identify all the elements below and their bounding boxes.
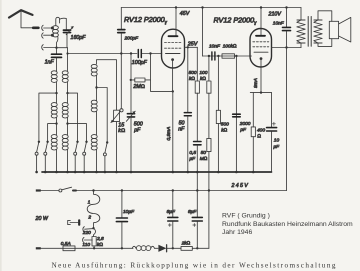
resistor 100kOhm vertical <box>203 8 212 139</box>
svg-text:500: 500 <box>189 70 197 76</box>
svg-text:Jahr 1946: Jahr 1946 <box>222 229 252 236</box>
wire cathode bar <box>250 92 271 94</box>
wire socket220 <box>85 228 94 231</box>
svg-text:8µF: 8µF <box>167 209 176 215</box>
svg-text:245V: 245V <box>231 183 250 189</box>
svg-text:0,5: 0,5 <box>189 150 196 156</box>
antenna plug <box>33 26 38 29</box>
svg-text:MΩ: MΩ <box>200 156 208 162</box>
tube U1 RV12 P2000 <box>162 8 185 92</box>
wire 25V node <box>185 46 198 48</box>
voltage selector plug <box>68 220 79 224</box>
wire socket1 to coil tap <box>44 27 53 29</box>
resistor 500kOhm (tube2 grid) <box>216 56 220 172</box>
capacitor 1nF <box>52 48 62 71</box>
capacitor 8uF no1 <box>168 191 178 249</box>
capacitor 200pF <box>118 8 125 54</box>
antenna <box>9 10 33 28</box>
capacitor 10nF anode <box>283 8 291 191</box>
node A junction <box>55 47 57 49</box>
switch S4 <box>83 141 88 172</box>
mains terminal upper <box>36 189 59 191</box>
switch S3 <box>74 141 79 172</box>
capacitor 100pF <box>138 50 141 58</box>
svg-text:220: 220 <box>82 230 91 236</box>
capacitor 10uF lower <box>116 191 127 249</box>
fuse 0,5A <box>63 246 133 251</box>
svg-text:pF: pF <box>239 127 247 133</box>
output transformer T1 primary <box>297 8 305 48</box>
svg-text:pF: pF <box>133 127 141 133</box>
wire grid2 line <box>203 55 252 57</box>
mains switch <box>59 187 287 192</box>
resistor 500kOhm (tube1) <box>195 47 199 141</box>
svg-text:Rundfunk Baukasten Heinzelmann: Rundfunk Baukasten Heinzelmann Allstrom <box>222 221 353 228</box>
socket 220 <box>83 227 84 232</box>
wire tap1 left <box>39 93 57 142</box>
svg-text:25V: 25V <box>187 42 198 48</box>
svg-text:10nF: 10nF <box>209 44 221 50</box>
svg-text:RV12 P2000ɣ: RV12 P2000ɣ <box>124 15 168 25</box>
resistor 50MOhm <box>207 138 211 248</box>
main bus ground line <box>42 171 272 173</box>
wire grid line A <box>67 48 69 71</box>
svg-text:kΩ: kΩ <box>118 128 125 134</box>
potentiometer 15kOhm <box>111 109 123 172</box>
svg-text:Neue Ausführung: Rückkopplung: Neue Ausführung: Rückkopplung wie in der… <box>52 261 337 269</box>
svg-text:kΩ: kΩ <box>97 242 103 248</box>
svg-text:0,9mA: 0,9mA <box>166 127 172 141</box>
diode D1 <box>158 245 181 252</box>
svg-text:210V: 210V <box>268 11 282 17</box>
svg-text:kΩ: kΩ <box>200 76 206 82</box>
wire plain drop <box>235 56 237 172</box>
socket 3 <box>42 45 43 50</box>
svg-text:RVF ( Grundig ): RVF ( Grundig ) <box>222 212 270 219</box>
svg-text:RV12 P2000ɣ: RV12 P2000ɣ <box>214 16 258 26</box>
heater dropper resistor meander <box>87 191 100 237</box>
anode wire tube2 <box>272 47 302 49</box>
wire socket2 to coil tap <box>44 34 53 36</box>
wire tap1 right <box>68 93 78 142</box>
capacitor 2000pF <box>233 114 241 117</box>
coil L4 column3 <box>91 60 116 172</box>
svg-text:2000: 2000 <box>239 121 251 127</box>
speaker LS <box>329 17 351 42</box>
filter choke <box>132 246 158 251</box>
scan edge shade <box>0 0 2 271</box>
svg-text:10nF: 10nF <box>273 21 285 27</box>
svg-text:2,8: 2,8 <box>96 236 104 242</box>
wire cathode link <box>151 80 173 91</box>
svg-text:50: 50 <box>201 150 207 156</box>
svg-text:200pF: 200pF <box>124 36 140 42</box>
svg-text:kΩ: kΩ <box>221 128 227 134</box>
wire D dots <box>93 247 199 249</box>
transformer core <box>308 17 311 47</box>
mains terminal lower <box>36 247 63 249</box>
svg-text:160pF: 160pF <box>71 35 87 41</box>
antenna coil L1 <box>51 17 60 47</box>
socket 1 <box>42 25 43 30</box>
svg-text:20 W: 20 W <box>35 216 49 222</box>
wire node A across <box>57 47 68 49</box>
wire socket3 to node <box>44 47 57 49</box>
wire 0,9mA cathode drop <box>172 91 174 172</box>
wire tap3 right <box>97 88 108 143</box>
svg-text:0,5A: 0,5A <box>61 241 71 247</box>
switch S5 <box>103 141 108 172</box>
svg-text:nF: nF <box>178 127 185 133</box>
wire anode tube2 <box>260 8 262 35</box>
resistor 2MOhm <box>130 54 151 82</box>
svg-text:2kΩ: 2kΩ <box>181 241 191 247</box>
socket 2 <box>42 33 43 38</box>
title block <box>222 212 353 236</box>
wire C junction dots <box>92 189 210 191</box>
svg-text:110: 110 <box>82 242 90 248</box>
svg-text:500: 500 <box>221 122 229 128</box>
svg-text:9mA: 9mA <box>253 78 259 88</box>
coil L3 column2 <box>62 71 69 172</box>
resistor 2kOhm <box>181 246 209 250</box>
svg-text:µF: µF <box>189 156 196 162</box>
svg-text:100pF: 100pF <box>132 60 148 66</box>
wire 200pF down to wiper <box>120 54 122 109</box>
socket 110 <box>83 237 84 242</box>
wire socket110 <box>84 239 92 241</box>
svg-text:Ω: Ω <box>257 134 261 140</box>
output transformer T1 secondary <box>314 11 332 47</box>
svg-text:10µF: 10µF <box>123 209 135 215</box>
switch S1 <box>35 141 40 172</box>
capacitor 10uF electrolytic <box>267 93 277 172</box>
svg-text:µF: µF <box>273 144 280 150</box>
resistor 2,8 kOhm <box>92 237 96 249</box>
svg-text:1: 1 <box>88 199 91 205</box>
capacitor 10nF coupling <box>212 52 215 60</box>
capacitor 8uF no2 <box>192 191 202 249</box>
trimmer capacitor 160pF <box>60 18 74 47</box>
variable capacitor 500pF <box>126 54 135 173</box>
svg-text:400: 400 <box>257 128 265 134</box>
tube U2 RV12 P2000 <box>250 29 272 93</box>
wire tap2 left <box>48 124 57 142</box>
resistor 400 Ohm <box>251 93 255 172</box>
svg-text:100kΩ: 100kΩ <box>223 44 237 50</box>
svg-text:100: 100 <box>199 70 207 76</box>
svg-text:kΩ: kΩ <box>189 76 195 82</box>
wire tap2 right <box>68 124 87 142</box>
capacitor 50nF <box>184 47 191 172</box>
svg-text:8µF: 8µF <box>188 209 197 215</box>
svg-text:45V: 45V <box>180 11 190 17</box>
capacitor 0,5uF <box>194 142 201 191</box>
switch S2 <box>44 141 49 172</box>
svg-text:2: 2 <box>87 215 91 221</box>
top rail 45V/210V <box>121 7 301 9</box>
svg-text:10: 10 <box>274 138 280 144</box>
svg-text:2MΩ: 2MΩ <box>132 84 144 90</box>
svg-text:1nF: 1nF <box>45 60 55 66</box>
resistor 100kOhm horizontal <box>222 54 235 58</box>
coil L2 column1 <box>51 71 58 172</box>
